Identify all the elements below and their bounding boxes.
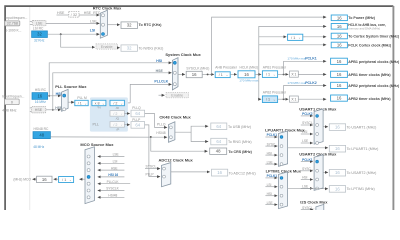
wire MCO input SYSCLK (98, 190, 125, 192)
wire HCLK out (255, 73, 261, 75)
wire LPUART1 out (288, 147, 328, 149)
svg-text:HSI48 RC: HSI48 RC (34, 127, 49, 131)
PLL M divider dropdown /1 (75, 100, 88, 105)
wire LPTIM1 input PCLK1 (265, 177, 277, 179)
wire HSI to system mux (49, 63, 171, 96)
svg-text:HSE: HSE (57, 11, 65, 15)
MCO value box 16 (37, 176, 52, 182)
svg-text:170 MHz max: 170 MHz max (239, 78, 259, 82)
svg-text:To USB (MHz): To USB (MHz) (228, 125, 251, 129)
To IWDG value box 32 (disabled) (121, 45, 137, 51)
svg-text:LSE: LSE (302, 139, 308, 143)
wire LPUART1 input PCLK1 (265, 136, 277, 138)
svg-text:32 KHz: 32 KHz (34, 39, 45, 43)
junction LSI (60, 33, 62, 35)
svg-text:PLL: PLL (93, 122, 99, 126)
svg-text:16: 16 (337, 24, 342, 29)
svg-text:⌄: ⌄ (120, 112, 123, 116)
wire enable to IWDG (118, 47, 120, 49)
mux CK48 Clock Mux (169, 122, 175, 143)
svg-text:HCLK (MHz): HCLK (MHz) (240, 65, 259, 69)
wire APB1 periph (284, 61, 327, 74)
junction HSE (52, 109, 54, 111)
svg-text:ADC12 Clock Mux: ADC12 Clock Mux (159, 158, 194, 163)
wire LPUART1 input LSE (265, 163, 277, 165)
wire APB1 out (278, 73, 289, 75)
Cortex timer value box 16 (331, 33, 347, 39)
APB2 timer value box 16 (331, 95, 348, 101)
divider /32 box (69, 12, 79, 17)
wire divider to MCO value (54, 178, 59, 180)
wire MCO input LSI (98, 162, 125, 164)
LSE input frequency box 32.768 (5, 21, 20, 26)
wire HCLK rail up (259, 26, 326, 74)
wire AHB to HCLK (230, 73, 237, 75)
svg-text:1-1000 K...: 1-1000 K... (5, 29, 21, 33)
svg-text:⌄: ⌄ (273, 73, 276, 77)
svg-text:(MHz) MCO: (MHz) MCO (13, 178, 31, 182)
svg-text:PLL M: PLL M (77, 96, 87, 100)
svg-text:X 1: X 1 (291, 73, 296, 77)
wire HSI48 to CRS (151, 137, 208, 151)
svg-text:To IWDG (KHz): To IWDG (KHz) (139, 46, 164, 50)
svg-text:16: 16 (217, 170, 222, 175)
wire CK48 to RNG (191, 132, 208, 141)
wire HSE to /32 (57, 14, 69, 16)
SYSCLK value box 16 (186, 71, 202, 77)
svg-text:PCLK2: PCLK2 (305, 81, 317, 85)
wire LPUART1 input SYSCLK (265, 145, 277, 147)
svg-text:HSI: HSI (302, 176, 307, 180)
svg-text:16: 16 (335, 170, 340, 175)
svg-text:PLLCLK: PLLCLK (154, 79, 168, 83)
wire LPTIM1 input HSI (265, 195, 277, 197)
PLL R divider dropdown /2 (110, 100, 124, 105)
mux PLL Source Mux (62, 89, 69, 111)
svg-text:Input frequen...: Input frequen... (2, 94, 24, 98)
svg-text:To Power (MHz): To Power (MHz) (348, 16, 375, 20)
svg-text:I2S Clock Mux: I2S Clock Mux (300, 199, 328, 204)
wire LSI to RTC mux (47, 33, 99, 35)
svg-text:64: 64 (216, 139, 221, 144)
svg-text:/ 1: / 1 (78, 101, 82, 105)
svg-text:LSE: LSE (36, 21, 43, 25)
system enable button (166, 93, 188, 98)
wire USART1 input LSE (301, 142, 313, 144)
PLL panel (90, 97, 128, 131)
wire HSI48 to CK48 (51, 136, 168, 138)
APB2 prescaler dropdown /1 (highlighted) (262, 96, 277, 103)
svg-text:⌄: ⌄ (120, 123, 123, 127)
svg-text:16: 16 (337, 72, 342, 77)
PLLP value box 64 (disabled) (131, 122, 145, 129)
To ADC12 value box 16 (disabled) (212, 169, 228, 176)
svg-text:APB1 peripheral clocks (MHz): APB1 peripheral clocks (MHz) (348, 60, 400, 64)
svg-text:/ 32: / 32 (71, 13, 77, 17)
svg-text:Enable: Enable (171, 94, 183, 98)
svg-text:memory and DMA (MHz): memory and DMA (MHz) (348, 27, 380, 31)
svg-text:LSE: LSE (302, 185, 308, 189)
svg-text:To RNG (MHz): To RNG (MHz) (228, 140, 252, 144)
oscillator LSI RC box 32 (32, 31, 48, 38)
wire MCO out to divider (79, 178, 85, 180)
svg-text:4-48 MHz: 4-48 MHz (2, 108, 17, 112)
wire USART1 input SYSCLK (301, 124, 313, 126)
svg-text:/ 1: / 1 (291, 36, 295, 40)
svg-text:/ 2: / 2 (113, 123, 117, 127)
svg-text:16: 16 (42, 177, 47, 182)
svg-text:64: 64 (216, 124, 221, 129)
APB1 peripheral value box 16 (331, 58, 348, 64)
svg-text:LSE: LSE (113, 153, 119, 157)
wire HCLK down to APB2 (259, 74, 261, 99)
junction SYSCLK (207, 73, 209, 75)
svg-text:Enable: Enable (101, 45, 113, 49)
svg-text:64: 64 (135, 122, 140, 127)
To USART1 value box 16 (disabled) (329, 124, 345, 131)
svg-text:PCLK1: PCLK1 (305, 57, 317, 61)
wire LPUART1 input HSI (265, 154, 277, 156)
svg-text:HSI48: HSI48 (156, 131, 165, 135)
svg-text:LSE: LSE (90, 20, 97, 24)
wire PLLP to ADC12 (145, 125, 160, 177)
svg-text:32: 32 (37, 32, 42, 37)
wire Q to PLLQ box (124, 113, 129, 115)
wire LPTIM1 input LSI (265, 186, 277, 188)
svg-text:/ 2: / 2 (113, 101, 117, 105)
APB2 peripheral value box 16 (331, 82, 348, 88)
svg-text:PCLK1: PCLK1 (267, 133, 278, 137)
svg-text:PLLQ: PLLQ (157, 123, 166, 127)
wire HSE to PLL mux (46, 109, 61, 111)
wire USART1 input HSI (301, 133, 313, 135)
svg-text:*N: *N (97, 106, 100, 110)
svg-text:To LPUART1 (MHz): To LPUART1 (MHz) (347, 147, 379, 151)
svg-text:SYSC...: SYSC... (267, 142, 278, 146)
wire SYSCLK to ADC12 (145, 168, 160, 170)
mux LPUART1 Clock Mux (279, 131, 288, 166)
svg-text:LSI: LSI (113, 160, 118, 164)
svg-text:HSI48: HSI48 (108, 194, 117, 198)
svg-text:FCLK Cortex clock (MHz): FCLK Cortex clock (MHz) (348, 43, 392, 47)
svg-text:SYSCL...: SYSCL... (302, 206, 315, 210)
wire LSI to RTC enable (61, 34, 95, 47)
svg-text:PLLP: PLLP (146, 173, 155, 177)
wire RTC mux output (107, 24, 119, 26)
svg-text:HSI: HSI (267, 192, 272, 196)
svg-text:16: 16 (337, 83, 342, 88)
svg-text:170 MHz max: 170 MHz max (287, 81, 307, 85)
svg-text:48 MHz: 48 MHz (33, 145, 44, 149)
svg-text:16: 16 (337, 43, 342, 48)
mux System Clock Mux (172, 58, 178, 90)
mux USART2 Clock Mux (314, 155, 323, 191)
svg-text:16: 16 (337, 15, 342, 20)
svg-text:PLLCLK: PLLCLK (107, 180, 120, 184)
svg-text:HSI RC: HSI RC (35, 88, 47, 92)
To USART2 value box 16 (disabled) (329, 169, 345, 176)
junction HSI (48, 95, 50, 97)
svg-text:/P: /P (116, 127, 119, 131)
svg-text:⌄: ⌄ (226, 73, 229, 77)
To LPTIM1 value box 16 (disabled) (329, 186, 345, 193)
svg-text:APB2 peripheral clocks (MHz): APB2 peripheral clocks (MHz) (348, 84, 400, 88)
oscillator HSI48 RC box 48 (33, 132, 50, 139)
svg-text:To USART1 (MHz): To USART1 (MHz) (347, 125, 377, 129)
wire MCO input HSE (98, 169, 125, 171)
RTC enable button (96, 44, 118, 49)
APB1 prescaler dropdown /1 (262, 71, 277, 78)
APB2 times X1 box (290, 96, 299, 102)
svg-text:HSI: HSI (156, 59, 162, 63)
svg-text:PCLK2: PCLK2 (302, 112, 313, 116)
svg-text:/ 1: / 1 (62, 178, 66, 182)
svg-text:To ADC12 (MHz): To ADC12 (MHz) (229, 171, 256, 175)
svg-text:⌄: ⌄ (84, 101, 87, 105)
To USB value box 64 (disabled) (211, 123, 227, 130)
wire cortex divider to box (303, 36, 326, 38)
svg-text:/ 2: / 2 (113, 112, 117, 116)
wire LPTIM1 out (288, 188, 328, 190)
svg-text:16: 16 (335, 146, 340, 151)
wire HCLK to FCLK (259, 44, 326, 46)
svg-text:PLLQ: PLLQ (132, 106, 141, 110)
svg-text:16: 16 (192, 72, 197, 77)
svg-text:LSI: LSI (90, 29, 95, 33)
svg-text:LSI RC: LSI RC (33, 27, 44, 31)
svg-text:32.768: 32.768 (7, 22, 18, 26)
svg-text:170 MHz max: 170 MHz max (287, 57, 307, 61)
svg-text:PCLK1: PCLK1 (267, 174, 278, 178)
wire LPTIM1 input LSE (265, 204, 277, 206)
wire USART1 out (323, 126, 328, 128)
svg-text:16: 16 (337, 96, 342, 101)
svg-text:⌄: ⌄ (273, 98, 276, 102)
wire ADC12 out (171, 171, 210, 173)
APB1 timer value box 16 (331, 71, 348, 77)
wire SYSCLK to AHB prescaler (202, 73, 214, 75)
junction APB2 (283, 98, 285, 100)
APB1 times X1 box (290, 71, 299, 77)
svg-text:PCLK1: PCLK1 (302, 158, 313, 162)
svg-text:/Q: /Q (116, 116, 120, 120)
HSE input frequency box 0 (5, 99, 20, 105)
svg-text:48: 48 (216, 149, 221, 154)
PLL Q divider dropdown /2 (disabled) (110, 111, 124, 117)
HCLK AHB value box 16 (331, 24, 347, 30)
svg-text:64: 64 (135, 111, 140, 116)
svg-text:LSE: LSE (267, 160, 273, 164)
wire PLL mux output (68, 101, 74, 103)
To LPUART1 value box 16 (disabled) (329, 145, 345, 152)
AHB prescaler dropdown /1 (215, 72, 230, 78)
oscillator HSI RC box 16 (32, 93, 48, 100)
HCLK value box 16 (238, 71, 255, 78)
svg-text:APB1 timer clocks (MHz): APB1 timer clocks (MHz) (348, 73, 391, 77)
cortex prescaler dropdown /1 (288, 34, 303, 40)
mux RTC Clock Mux (100, 10, 107, 38)
wire USART2 out (323, 171, 328, 173)
svg-text:HSI 16: HSI 16 (108, 173, 118, 177)
svg-text:/ 1: / 1 (219, 73, 223, 77)
mux USART1 Clock Mux (314, 109, 323, 144)
svg-text:16: 16 (335, 125, 340, 130)
svg-text:HSE: HSE (111, 166, 118, 170)
wire LSE to RTC mux (46, 22, 100, 24)
svg-text:SYSCL...: SYSCL... (302, 121, 315, 125)
svg-text:HSE: HSE (35, 108, 43, 112)
svg-text:/ 1: / 1 (266, 98, 270, 102)
wire USART2 input LSE (301, 187, 313, 189)
wire PLLCLK to system mux (130, 84, 171, 103)
svg-text:Input frequen...: Input frequen... (5, 16, 27, 20)
svg-text:⌄: ⌄ (298, 36, 301, 40)
wire HSE to system mux (53, 73, 172, 110)
svg-text:32: 32 (127, 23, 132, 28)
To RTC value box 32 (121, 22, 137, 29)
svg-text:16: 16 (337, 59, 342, 64)
svg-text:MCO Source Mux: MCO Source Mux (80, 142, 114, 147)
mux ADC12 Clock Mux (162, 163, 171, 187)
svg-text:SYSCL...: SYSCL... (146, 165, 160, 169)
wire SYSCLK to Power (212, 17, 327, 74)
wire MCO value to pin (32, 178, 36, 180)
junction HSI48 (150, 136, 152, 138)
svg-text:0: 0 (11, 100, 13, 104)
wire CK48 out (175, 126, 208, 132)
To Power value box 16 (331, 15, 347, 21)
wire USART2 input HSI (301, 179, 313, 181)
wire APB2 out (278, 98, 289, 100)
svg-text:16: 16 (244, 72, 249, 77)
svg-text:To CRS (MHz): To CRS (MHz) (228, 150, 252, 154)
wire MCO input LSE (98, 156, 125, 158)
svg-text:RTC Clock Mux: RTC Clock Mux (93, 5, 122, 10)
wire HCLK to cortex divider (259, 36, 287, 38)
wire APB2 timer (298, 98, 326, 100)
svg-text:LSE: LSE (267, 201, 273, 205)
svg-text:AHB Prescaler: AHB Prescaler (215, 65, 238, 69)
svg-text:HSI: HSI (267, 151, 272, 155)
To CRS value box 48 (210, 148, 227, 154)
svg-text:HSE: HSE (156, 69, 164, 73)
PLL N multiplier dropdown x8 (92, 100, 106, 105)
mux MCO Source Mux (85, 147, 94, 204)
svg-text:PLL Source Mux: PLL Source Mux (55, 84, 87, 89)
mux LPTIM1 Clock Mux (279, 172, 288, 209)
wire PLL R output to PLLCLK rail (125, 102, 131, 104)
wire USART2 input SYSCLK (301, 170, 313, 172)
svg-text:CK48 Clock Mux: CK48 Clock Mux (159, 114, 191, 119)
wire MCO input HSI48 (98, 196, 125, 198)
svg-text:SYSCLK: SYSCLK (106, 187, 119, 191)
wire APB1 timer (298, 73, 326, 75)
svg-text:APB2 timer clocks (MHz): APB2 timer clocks (MHz) (348, 97, 391, 101)
wire MCO input PLLCLK (98, 183, 131, 185)
oscillator HSE box (dashed, disabled) (30, 107, 46, 113)
svg-text:SYSCLK (MHz): SYSCLK (MHz) (186, 66, 209, 70)
svg-text:16 MHz: 16 MHz (35, 100, 46, 104)
junction APB1 (283, 73, 285, 75)
svg-text:To USART2 (MHz): To USART2 (MHz) (347, 171, 377, 175)
To RNG value box 64 (disabled) (211, 138, 227, 145)
junction HCLK (258, 73, 260, 75)
oscillator LSE box (30, 20, 46, 25)
wire I2S input SYSCLK (301, 209, 313, 211)
wire HSI to PLL mux (48, 95, 61, 97)
svg-text:To Cortex System timer (MHz): To Cortex System timer (MHz) (348, 34, 400, 38)
svg-text:To RTC (KHz): To RTC (KHz) (139, 23, 163, 27)
svg-text:⌄: ⌄ (102, 101, 105, 105)
wire USART2 input PCLK1 (301, 161, 313, 163)
PLLQ value box 64 (disabled) (131, 110, 145, 117)
wire system mux output (178, 73, 185, 75)
column separator (29, 7, 31, 210)
svg-text:To LPTIM1 (MHz): To LPTIM1 (MHz) (347, 187, 375, 191)
wire PLLQ to CK48 (145, 114, 167, 128)
MCO divider dropdown /1 (59, 177, 74, 183)
FCLK value box 16 (331, 42, 347, 48)
svg-text:⌄: ⌄ (69, 178, 72, 182)
PLL P divider dropdown /2 (disabled) (110, 122, 124, 128)
svg-text:X 1: X 1 (291, 98, 296, 102)
svg-text:48: 48 (39, 133, 44, 138)
svg-text:16: 16 (337, 34, 342, 39)
wire USART1 input PCLK2 (301, 115, 313, 117)
svg-text:32: 32 (127, 46, 132, 51)
mux I2S Clock Mux (clipped) (316, 204, 324, 210)
wire APB2 periph (284, 86, 327, 100)
wire sysclk enable stub (159, 94, 165, 96)
svg-text:HSI: HSI (56, 92, 62, 96)
svg-text:System Clock Mux: System Clock Mux (165, 52, 201, 57)
svg-text:16: 16 (37, 94, 42, 99)
wire P to PLLP box (124, 124, 129, 126)
svg-text:16: 16 (335, 186, 340, 191)
wire HSE_RTC to RTC mux (79, 14, 100, 16)
svg-text:⌄: ⌄ (120, 101, 123, 105)
wire MCO input HSI16 (98, 176, 125, 178)
svg-text:SYSC...: SYSC... (302, 167, 313, 171)
svg-text:/ 1: / 1 (266, 73, 270, 77)
svg-text:LSI: LSI (267, 183, 272, 187)
svg-text:HSE_RTC: HSE_RTC (84, 11, 101, 15)
